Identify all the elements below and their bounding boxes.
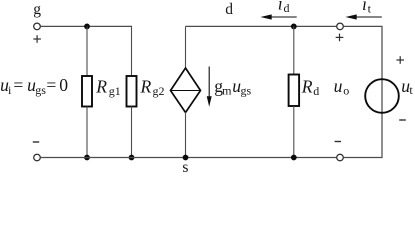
label Rg1 xyxy=(95,77,121,98)
label Rg2 xyxy=(140,77,165,98)
label u_i = u_gs = 0 xyxy=(0,75,68,97)
source u_t (test source circle) xyxy=(365,79,399,113)
wire Rg1 upper vertical xyxy=(86,26,88,76)
svg-text:i: i xyxy=(8,83,12,97)
svg-text:g1: g1 xyxy=(109,84,121,98)
wire top-left segment xyxy=(41,25,132,27)
wire top-right segment xyxy=(186,25,337,27)
wire bottom rail (right of output terminal) xyxy=(344,157,383,159)
svg-text:m: m xyxy=(222,84,232,98)
arrow current direction of source (downward) xyxy=(207,67,212,107)
svg-text:d: d xyxy=(225,1,233,18)
junction dot (source bottom, node s) xyxy=(183,155,189,161)
current arrow i_d (pointing left) xyxy=(260,14,296,19)
minus sign (source u_t) xyxy=(399,119,406,121)
resistor Rd xyxy=(289,75,300,107)
plus sign (input top) xyxy=(33,35,41,43)
svg-text:=: = xyxy=(13,75,23,95)
wire Rg2 upper vertical xyxy=(131,26,133,76)
wire Rd lower vertical xyxy=(293,106,295,158)
svg-text:t: t xyxy=(409,83,413,97)
svg-text:d: d xyxy=(284,1,290,15)
node d label xyxy=(225,1,233,18)
resistor Rg1 xyxy=(82,76,92,107)
junction dot (Rd top, node d) xyxy=(291,24,297,30)
svg-text:R: R xyxy=(301,77,313,97)
svg-text:g2: g2 xyxy=(153,84,165,98)
plus sign (output) xyxy=(336,34,344,42)
label u_o xyxy=(334,76,350,98)
junction dot (Rg1 top) xyxy=(84,24,90,30)
svg-text:s: s xyxy=(182,159,188,173)
terminal (open circle, output top) xyxy=(337,23,344,30)
plus sign (source u_t) xyxy=(396,56,404,64)
label Rd xyxy=(301,77,319,98)
svg-text:gs: gs xyxy=(241,84,252,98)
junction dot (Rg1 bottom) xyxy=(84,155,90,161)
svg-text:gs: gs xyxy=(35,83,46,97)
minus sign (input bottom) xyxy=(33,141,39,143)
wire dependent-source lower stub xyxy=(185,112,187,158)
label i_t xyxy=(362,0,372,15)
node s label xyxy=(182,159,188,176)
svg-text:R: R xyxy=(95,77,107,97)
wire Rd upper vertical xyxy=(293,26,295,74)
wire bottom rail (left of output terminal) xyxy=(41,157,337,159)
label u_t xyxy=(401,76,413,97)
svg-text:i: i xyxy=(362,0,367,14)
terminal (open circle, output bottom) xyxy=(337,154,344,161)
current arrow i_t (pointing left) xyxy=(345,14,381,19)
node g terminal (open circle, input top) xyxy=(34,23,41,30)
wire Rg2 lower vertical xyxy=(131,107,133,158)
label i_d xyxy=(278,0,290,15)
wire dependent-source upper stub xyxy=(185,26,187,68)
resistor Rg2 xyxy=(127,76,137,107)
label gm u_gs xyxy=(214,76,251,98)
svg-text:g: g xyxy=(33,1,41,18)
minus sign (output) xyxy=(335,141,341,143)
terminal (open circle, input bottom) xyxy=(34,154,41,161)
node g label xyxy=(33,1,41,18)
svg-text:0: 0 xyxy=(59,75,68,95)
svg-text:o: o xyxy=(343,83,349,97)
wire Rg1 lower vertical xyxy=(86,107,88,158)
junction dot (Rg2 bottom) xyxy=(129,155,135,161)
svg-text:R: R xyxy=(140,77,152,97)
svg-text:d: d xyxy=(313,84,319,98)
wire output-top to right column xyxy=(344,26,382,157)
svg-text:i: i xyxy=(278,0,283,14)
svg-text:u: u xyxy=(334,76,343,96)
dependent current source gm·ugs (diamond) xyxy=(171,68,201,113)
svg-text:=: = xyxy=(46,75,56,95)
svg-text:t: t xyxy=(368,1,372,15)
junction dot (Rd bottom) xyxy=(291,155,297,161)
